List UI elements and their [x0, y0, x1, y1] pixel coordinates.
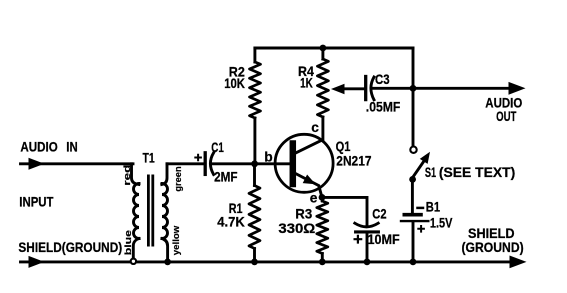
- svg-text:1.5V: 1.5V: [430, 216, 453, 231]
- svg-text:T1: T1: [143, 150, 156, 165]
- svg-text:c: c: [311, 120, 319, 135]
- svg-text:1K: 1K: [300, 76, 313, 91]
- svg-text:green: green: [173, 166, 184, 191]
- svg-text:INPUT: INPUT: [19, 194, 54, 209]
- svg-text:IN: IN: [66, 139, 77, 154]
- svg-text:OUT: OUT: [496, 109, 517, 124]
- svg-text:Q1: Q1: [336, 139, 351, 154]
- svg-text:S1: S1: [425, 165, 437, 180]
- svg-text:SHIELD(GROUND): SHIELD(GROUND): [18, 240, 122, 255]
- svg-text:(GROUND): (GROUND): [462, 240, 524, 255]
- svg-text:B1: B1: [426, 200, 441, 215]
- svg-text:10MF: 10MF: [368, 232, 400, 247]
- svg-text:AUDIO: AUDIO: [20, 139, 58, 154]
- svg-text:blue: blue: [123, 230, 134, 255]
- svg-text:C3: C3: [375, 72, 390, 87]
- svg-text:yellow: yellow: [171, 225, 182, 255]
- svg-text:4.7K: 4.7K: [217, 214, 245, 229]
- svg-text:C2: C2: [372, 207, 387, 222]
- svg-text:e: e: [310, 191, 318, 206]
- svg-text:2MF: 2MF: [214, 170, 237, 185]
- svg-text:SHIELD: SHIELD: [468, 226, 515, 241]
- svg-text:.05MF: .05MF: [366, 99, 401, 114]
- svg-text:R3: R3: [295, 207, 312, 222]
- svg-text:330Ω: 330Ω: [278, 221, 315, 236]
- svg-text:b: b: [264, 150, 272, 165]
- svg-text:C1: C1: [211, 140, 224, 155]
- svg-text:red: red: [122, 164, 133, 185]
- svg-text:10K: 10K: [224, 76, 245, 91]
- svg-text:2N217: 2N217: [336, 153, 371, 168]
- svg-text:(SEE TEXT): (SEE TEXT): [439, 165, 515, 180]
